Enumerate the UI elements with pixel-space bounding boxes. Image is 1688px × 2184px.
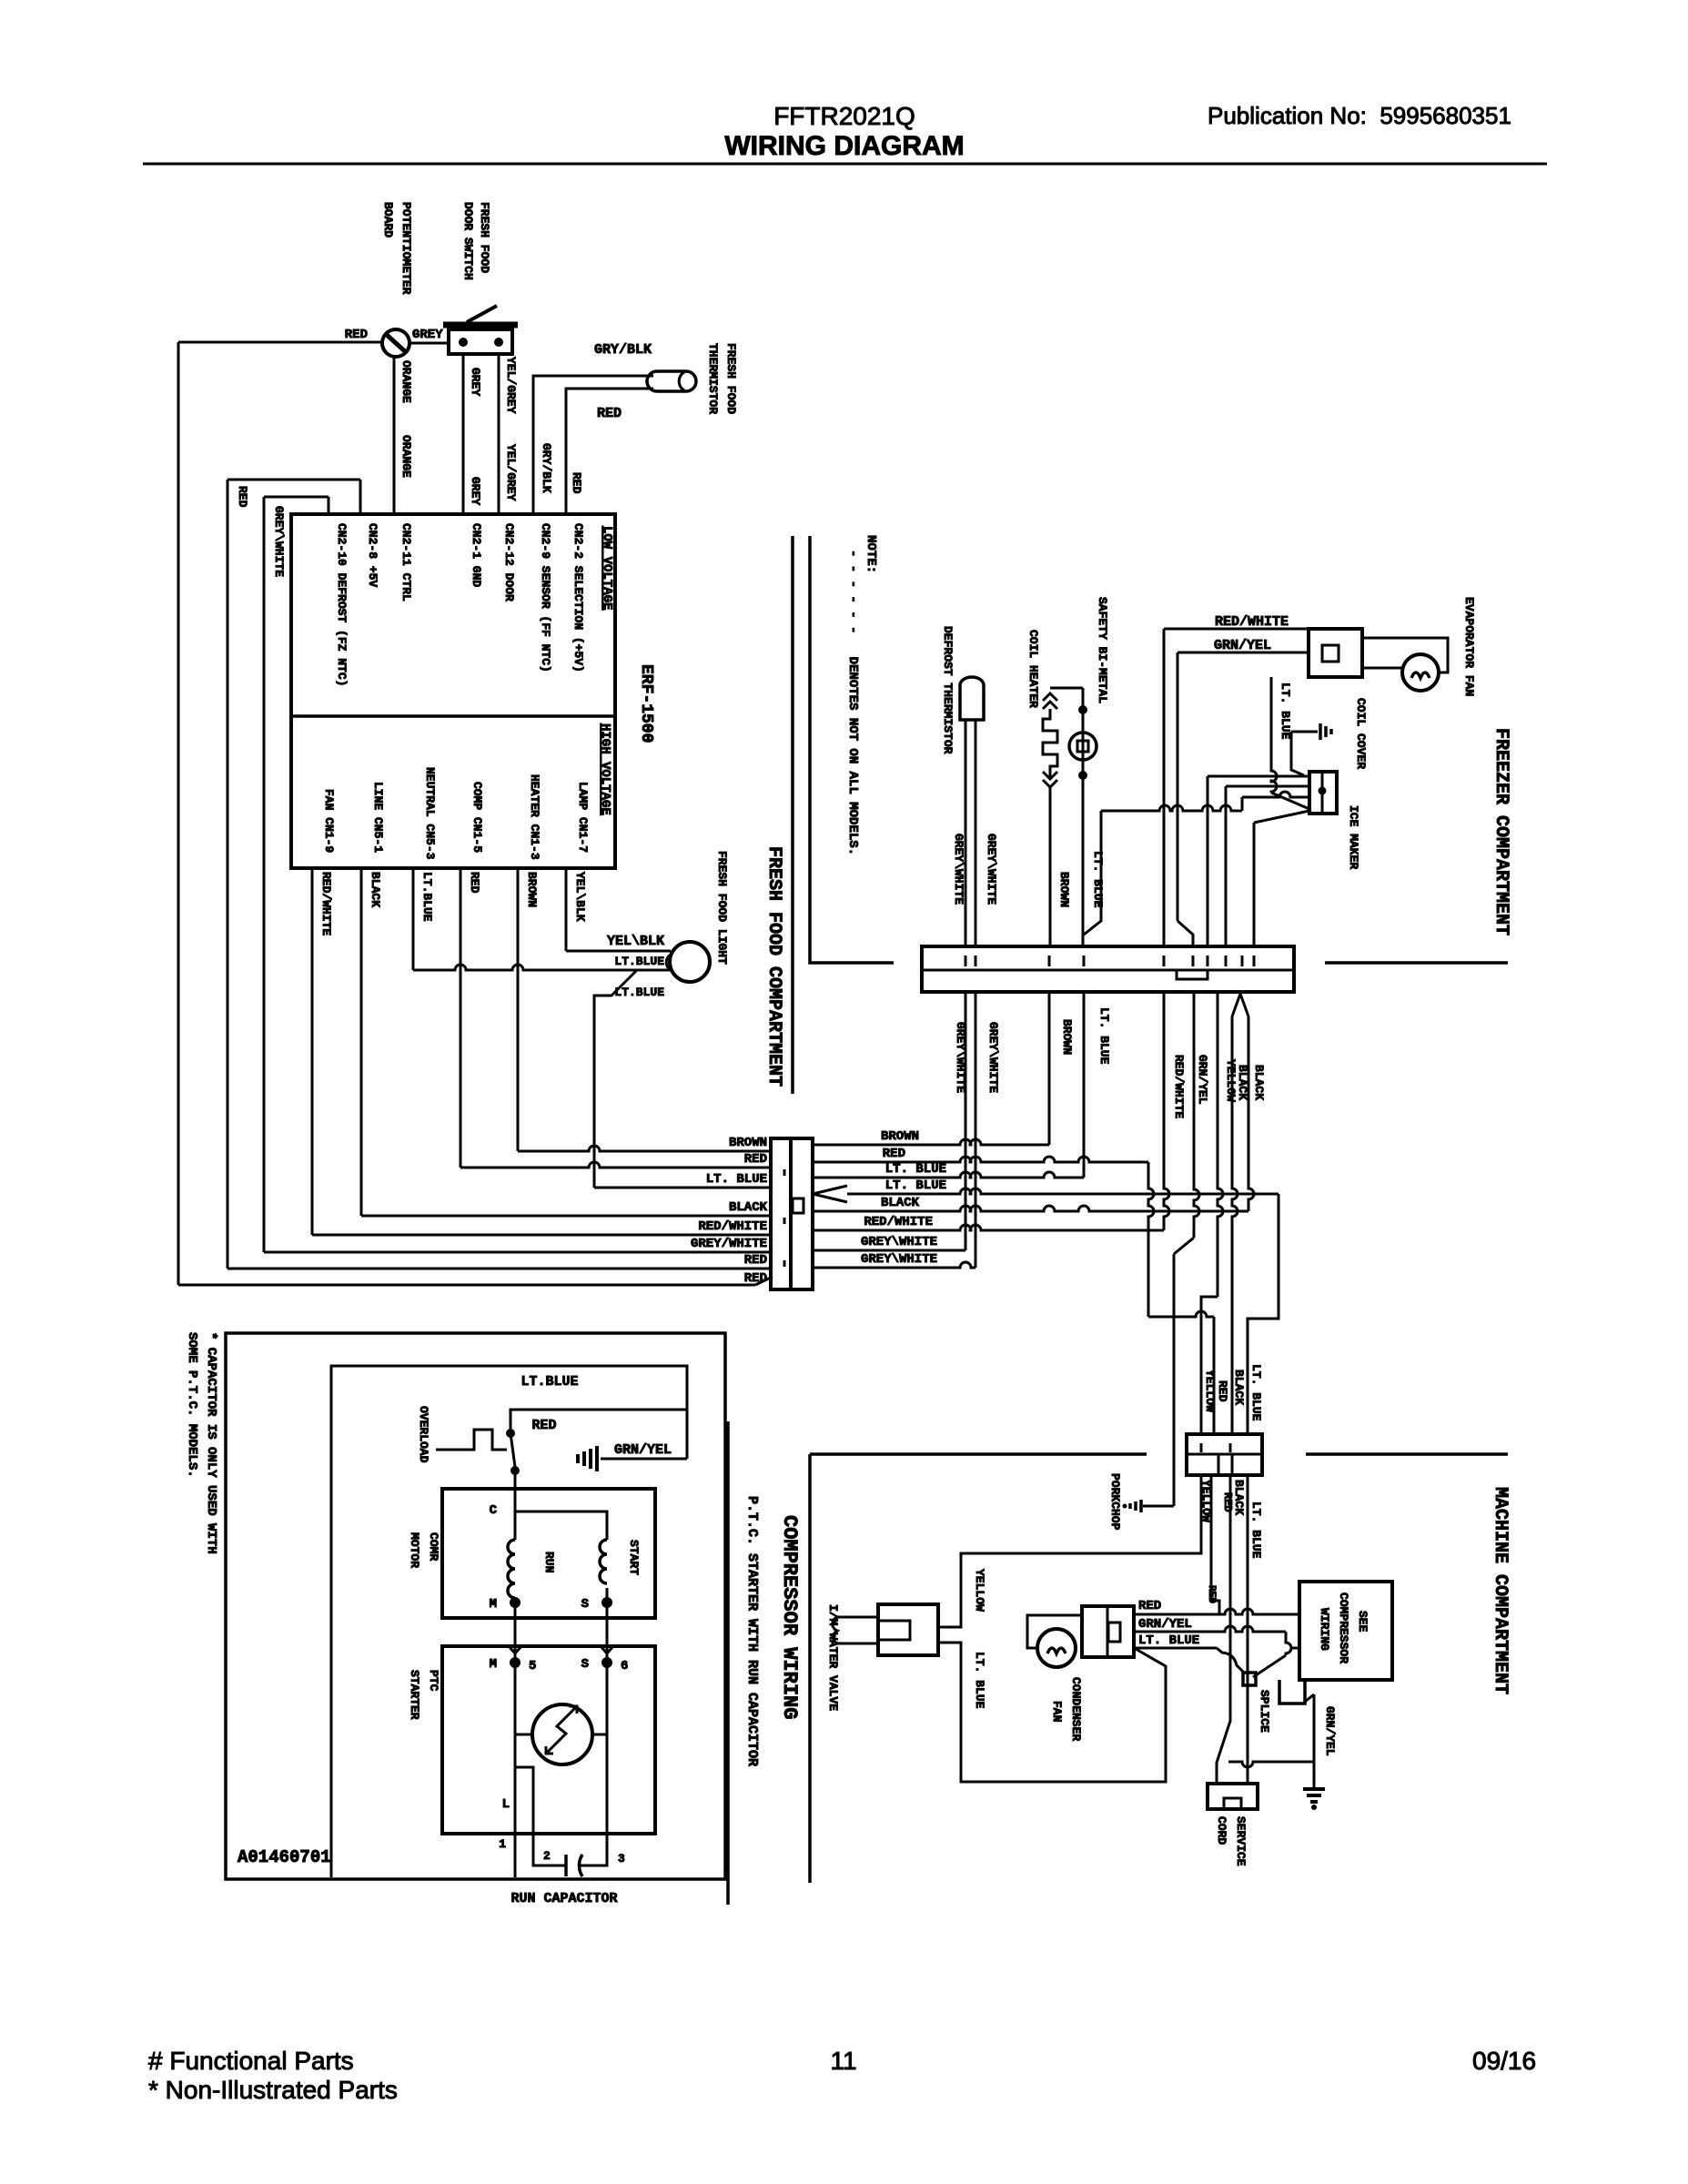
svg-text:POTENTIOMETER: POTENTIOMETER — [399, 202, 413, 295]
svg-text:ERF-1500: ERF-1500 — [637, 664, 655, 743]
wire LT. BLUE row left — [594, 1187, 771, 1189]
overload protector S3 — [436, 1430, 507, 1450]
svg-text:THERMISTOR: THERMISTOR — [706, 343, 720, 414]
stub CN2-10 pin — [328, 497, 330, 514]
wire pin3 — [606, 1734, 609, 1849]
wire LT.BLUE bumps-line join — [1084, 811, 1101, 935]
wire LT. BLUE stub to compressor box — [1291, 1647, 1301, 1650]
freezer compartment boundary right — [1325, 961, 1508, 965]
svg-text:MACHINE COMPARTMENT: MACHINE COMPARTMENT — [1490, 1487, 1511, 1694]
svg-text:COMPRESSOR WIRING: COMPRESSOR WIRING — [778, 1515, 801, 1719]
compressor detail outer box — [226, 1333, 725, 1879]
wire ice maker third — [1242, 792, 1309, 797]
wire GREY\WHITE row right 1 — [813, 1249, 965, 1252]
wire evap fan connector to motor top — [1362, 638, 1448, 672]
wire GREY\WHITE row right 2 — [813, 1262, 975, 1268]
svg-text:RED: RED — [744, 1152, 767, 1167]
freezer harness connector J3 — [922, 946, 1294, 992]
wire GREY\WHITE defrost 2 — [975, 720, 977, 946]
svg-text:RED: RED — [1221, 1492, 1234, 1512]
wire LT.BLUE loop — [331, 1366, 687, 1877]
wire RED/WHITE row left — [312, 1234, 771, 1237]
svg-text:LT. BLUE: LT. BLUE — [1249, 1501, 1263, 1559]
wire GREY\WHITE column horizontal — [264, 496, 329, 499]
see compressor wiring box — [1299, 1582, 1392, 1680]
starter M terminal — [510, 1657, 521, 1668]
coil heater R2 — [1050, 687, 1083, 690]
svg-text:RED: RED — [531, 1418, 556, 1433]
compartment divider line A — [791, 536, 794, 1094]
motor S terminal — [601, 1597, 612, 1608]
wire RED left column vertical — [177, 342, 180, 1285]
svg-text:YEL\BLK: YEL\BLK — [573, 872, 587, 922]
svg-text:* Non-Illustrated Parts: * Non-Illustrated Parts — [148, 2076, 398, 2104]
svg-text:HEATER CN1-3: HEATER CN1-3 — [528, 774, 541, 860]
wire coil cover ground — [1291, 732, 1304, 775]
svg-text:GREY\WHITE: GREY\WHITE — [861, 1235, 937, 1249]
compressor wiring section boundary — [726, 1421, 730, 1905]
svg-text:START: START — [627, 1540, 641, 1575]
svg-text:1: 1 — [499, 1837, 506, 1851]
control board ERF-1500 outline — [291, 514, 615, 868]
coil cover ground symbol — [1291, 731, 1318, 733]
wire YEL\BLK to fresh food light — [566, 950, 671, 953]
svg-text:COMPRESSOR: COMPRESSOR — [1337, 1592, 1350, 1663]
svg-text:GRY/BLK: GRY/BLK — [540, 443, 553, 493]
wire BLACK row left — [361, 1215, 771, 1218]
svg-text:BLACK: BLACK — [729, 1200, 768, 1215]
motor M terminal — [510, 1597, 521, 1608]
svg-text:NEUTRAL CN5-3: NEUTRAL CN5-3 — [423, 767, 437, 860]
im water valve coil L1 — [837, 1616, 878, 1619]
svg-text:FAN: FAN — [1050, 1701, 1064, 1722]
potentiometer board R1 — [382, 329, 409, 357]
ptc starter box — [442, 1646, 655, 1834]
svg-text:RED: RED — [597, 406, 622, 421]
svg-text:LOW VOLTAGE: LOW VOLTAGE — [600, 526, 614, 610]
svg-text:FRESH FOOD: FRESH FOOD — [478, 202, 491, 273]
wire RED overload — [510, 1410, 687, 1429]
evaporator fan connector J1 — [1309, 629, 1362, 677]
svg-text:LT.BLUE: LT.BLUE — [614, 986, 664, 999]
svg-text:GREY\WHITE: GREY\WHITE — [985, 834, 998, 905]
stub CN2-8 pin — [359, 480, 362, 514]
svg-text:RED/WHITE: RED/WHITE — [1172, 1055, 1186, 1118]
svg-text:RED/WHITE: RED/WHITE — [698, 1219, 767, 1234]
wire BROWN row left — [518, 1146, 771, 1151]
svg-text:RED: RED — [1206, 1585, 1217, 1603]
svg-text:BROWN: BROWN — [881, 1129, 919, 1144]
porkchop ground wire — [1143, 1505, 1174, 1508]
svg-text:11: 11 — [830, 2047, 856, 2075]
svg-text:- - - - - - DENOTES NOT ON A: - - - - - - DENOTES NOT ON ALL MODELS. — [845, 550, 860, 855]
svg-text:RED: RED — [1216, 1380, 1229, 1402]
svg-text:CN2-12 DOOR: CN2-12 DOOR — [502, 523, 516, 602]
wire evap fan connector to motor bottom — [1362, 667, 1402, 670]
wire RED row left — [460, 1162, 771, 1168]
svg-text:BROWN: BROWN — [525, 872, 539, 907]
wire M to starter — [514, 1603, 517, 1663]
im water valve connector — [878, 1604, 938, 1655]
wire RED thermistor to board CN2-2 — [566, 389, 653, 514]
svg-text:GREY\WHITE: GREY\WHITE — [954, 1022, 967, 1093]
wire LT. BLUE porkchop to splice and service cord — [1247, 1475, 1249, 1784]
svg-text:M: M — [490, 1657, 497, 1672]
wire LT. BLUE condenser to splice — [1134, 1647, 1217, 1650]
svg-text:LT. BLUE: LT. BLUE — [1249, 1364, 1263, 1421]
svg-text:S: S — [581, 1597, 589, 1612]
svg-text:YELLOW: YELLOW — [973, 1569, 986, 1612]
svg-text:GREY\WHITE: GREY\WHITE — [272, 506, 286, 577]
wedge splice arrow LT. BLUE — [813, 1186, 847, 1202]
svg-text:CN2-1 GND: CN2-1 GND — [470, 523, 483, 587]
svg-text:3: 3 — [618, 1852, 625, 1865]
evaporator fan motor M1 — [1402, 654, 1439, 691]
wire LT. BLUE water valve loop — [938, 1643, 1166, 1782]
svg-text:GRY/BLK: GRY/BLK — [594, 342, 652, 358]
svg-text:GRN/YEL: GRN/YEL — [1138, 1617, 1192, 1632]
wire RED condenser to compressor box — [1134, 1609, 1301, 1614]
wire GRN/YEL to service ground — [1305, 1694, 1314, 1702]
svg-text:6: 6 — [621, 1659, 628, 1673]
wire BROWN below connector — [1048, 992, 1051, 1145]
svg-text:LT. BLUE: LT. BLUE — [885, 1162, 946, 1177]
svg-text:GRN/YEL: GRN/YEL — [1196, 1055, 1209, 1105]
machine compartment boundary — [810, 1452, 1147, 1456]
svg-text:BROWN: BROWN — [729, 1136, 767, 1150]
wire BLACK from LINE CN5-1 — [360, 868, 363, 1216]
wire RED row left lower — [227, 1268, 771, 1270]
svg-text:SERVICE: SERVICE — [1234, 1816, 1248, 1866]
wire GRN/YEL ice maker — [1208, 775, 1309, 778]
svg-text:NOTE:: NOTE: — [864, 535, 878, 573]
svg-text:ICE MAKER: ICE MAKER — [1347, 805, 1360, 869]
svg-text:RED: RED — [744, 1253, 767, 1268]
ice maker connector J2 — [1309, 772, 1337, 814]
svg-text:RED: RED — [345, 328, 368, 342]
condenser fan connector J6 — [1082, 1606, 1134, 1657]
wire GREY\WHITE below connector 1 — [965, 992, 967, 1250]
svg-text:YEL\BLK: YEL\BLK — [607, 934, 664, 949]
svg-text:HIGH VOLTAGE: HIGH VOLTAGE — [598, 723, 612, 815]
svg-text:GRN/YEL: GRN/YEL — [1323, 1706, 1337, 1756]
wire YELLOW below connector — [1218, 992, 1223, 1297]
svg-text:LAMP CN1-7: LAMP CN1-7 — [576, 782, 590, 853]
wire RED/WHITE from FAN CN1-9 — [311, 868, 314, 1235]
svg-text:BLACK: BLACK — [369, 872, 382, 907]
svg-text:COIL COVER: COIL COVER — [1354, 698, 1368, 769]
wire GRN/YEL evap fan to connector — [1178, 652, 1309, 654]
svg-text:2: 2 — [543, 1849, 551, 1863]
svg-text:A01460701: A01460701 — [238, 1847, 331, 1867]
svg-text:WIRING: WIRING — [1318, 1608, 1331, 1651]
wire GRN/YEL splice jumper — [1228, 1762, 1314, 1767]
wire YEL\BLK from LAMP CN1-7 — [565, 868, 568, 951]
svg-text:OVERLOAD: OVERLOAD — [417, 1406, 430, 1463]
svg-text:# Functional Parts: # Functional Parts — [148, 2047, 354, 2075]
svg-text:RED: RED — [744, 1271, 767, 1286]
svg-text:BLACK: BLACK — [881, 1196, 920, 1210]
wire GRY/BLK thermistor to board CN2-9 — [533, 376, 653, 514]
wire LT. BLUE below connector — [1083, 992, 1086, 1178]
svg-text:L: L — [502, 1797, 510, 1812]
black pair split wedge — [1232, 994, 1248, 1016]
condenser fan motor M2 — [1037, 1629, 1076, 1667]
header rule — [143, 163, 1547, 166]
comr motor box — [442, 1489, 655, 1618]
svg-text:CN2-11 CTRL: CN2-11 CTRL — [399, 523, 413, 602]
wire LT.BLUE from NEUTRAL CN5-3 — [412, 868, 415, 970]
svg-text:WIRING DIAGRAM: WIRING DIAGRAM — [724, 131, 964, 161]
svg-text:CN2-2 SELECTION (+5V): CN2-2 SELECTION (+5V) — [571, 523, 585, 672]
porkchop connector J5 — [1187, 1434, 1262, 1475]
wire BLACK porkchop down — [1217, 1475, 1230, 1784]
svg-text:LT. BLUE: LT. BLUE — [1097, 1007, 1111, 1065]
svg-text:CN2-8 +5V: CN2-8 +5V — [366, 523, 379, 587]
svg-text:CN2-10 DEFROST (FZ NTC): CN2-10 DEFROST (FZ NTC) — [335, 523, 349, 686]
svg-text:BLACK: BLACK — [1232, 1480, 1246, 1515]
svg-text:5: 5 — [529, 1659, 536, 1673]
wire S to starter — [606, 1588, 609, 1663]
fresh food harness connector J4 — [771, 1138, 791, 1289]
svg-text:DEFROST THERMISTOR: DEFROST THERMISTOR — [941, 626, 955, 754]
fresh food thermistor RT1 — [647, 371, 696, 391]
svg-text:SAFETY BI-METAL: SAFETY BI-METAL — [1096, 597, 1109, 703]
wire RED/WHITE row right — [813, 1225, 1164, 1230]
svg-text:LT.BLUE: LT.BLUE — [521, 1374, 578, 1390]
svg-text:YEL/GREY: YEL/GREY — [504, 444, 518, 501]
wire BLACK ice maker diagonal — [1254, 811, 1309, 823]
svg-text:LT.BLUE: LT.BLUE — [420, 872, 434, 922]
svg-text:LT. BLUE: LT. BLUE — [973, 1652, 986, 1709]
ground symbol GRN/YEL compressor — [601, 1458, 687, 1461]
wire LT. BLUE wedge row right — [847, 1188, 1279, 1194]
svg-text:YELLOW: YELLOW — [1199, 1480, 1213, 1522]
defrost thermistor RT2 — [960, 677, 984, 720]
svg-text:FAN CN1-9: FAN CN1-9 — [322, 789, 336, 853]
safety bi-metal S2 — [1078, 705, 1087, 714]
wire RED from potentiometer to left column — [178, 341, 382, 344]
svg-text:C: C — [490, 1503, 498, 1518]
svg-text:STARTER: STARTER — [408, 1670, 421, 1720]
wire GREY potentiometer to switch — [409, 342, 449, 345]
svg-text:RED: RED — [468, 872, 481, 894]
svg-text:ORANGE: ORANGE — [399, 360, 413, 403]
svg-text:GREY: GREY — [469, 368, 482, 396]
wire GRN/YEL condenser to splice — [1134, 1626, 1286, 1632]
wire RED row right — [813, 1157, 1148, 1162]
svg-text:09/16: 09/16 — [1472, 2047, 1536, 2075]
svg-text:BLACK: BLACK — [1252, 1065, 1266, 1100]
svg-text:M: M — [490, 1597, 497, 1612]
wire RED porkchop down — [1211, 1475, 1219, 1614]
svg-text:RED: RED — [1138, 1599, 1161, 1613]
svg-text:YELLOW: YELLOW — [1203, 1370, 1217, 1412]
service cord connector J7 — [1208, 1784, 1258, 1809]
wire BROWN coil heater to connector — [1049, 787, 1052, 946]
svg-text:COMR: COMR — [427, 1532, 440, 1561]
wire GREY\WHITE defrost 1 — [965, 720, 967, 946]
svg-text:LT. BLUE: LT. BLUE — [1091, 851, 1105, 908]
wire M to ptc — [515, 1663, 532, 1734]
wire BLACK below connector 1 — [1232, 1016, 1238, 1434]
compartment divider line B — [810, 536, 894, 963]
wire GREY\WHITE column vertical — [263, 497, 266, 1252]
svg-text:EVAPORATOR FAN: EVAPORATOR FAN — [1462, 597, 1476, 696]
svg-text:LT. BLUE: LT. BLUE — [1138, 1633, 1199, 1648]
wire BROWN from HEATER CN1-3 — [517, 868, 520, 1151]
wire GREY door switch to board CN2-1 — [462, 354, 465, 514]
svg-text:GRN/YEL: GRN/YEL — [1214, 638, 1271, 653]
svg-text:RED/WHITE: RED/WHITE — [864, 1215, 933, 1229]
run winding L2 — [508, 1540, 515, 1598]
start winding L3 — [600, 1540, 607, 1583]
svg-text:CONDENSER: CONDENSER — [1069, 1677, 1083, 1741]
run capacitor C1 — [533, 1849, 566, 1865]
svg-text:I/M WATER VALVE: I/M WATER VALVE — [826, 1604, 840, 1711]
svg-text:LT. BLUE: LT. BLUE — [1279, 682, 1292, 740]
svg-text:* CAPACITOR IS ONLY USED WITH: * CAPACITOR IS ONLY USED WITH — [204, 1332, 218, 1554]
svg-text:GREY: GREY — [469, 477, 482, 505]
svg-text:GREY\WHITE: GREY\WHITE — [986, 1022, 1000, 1093]
svg-text:BROWN: BROWN — [1060, 1019, 1074, 1055]
svg-text:FFTR2021Q: FFTR2021Q — [773, 102, 915, 130]
svg-text:YEL/GREY: YEL/GREY — [504, 357, 518, 414]
wire BROWN row right — [813, 1139, 1049, 1145]
wire L step — [515, 1767, 533, 1849]
wire RED +5V column vertical — [227, 480, 229, 1269]
svg-text:SEE: SEE — [1356, 1611, 1370, 1633]
ptc resistor RT3 — [532, 1704, 592, 1764]
svg-text:RUN: RUN — [542, 1552, 556, 1572]
svg-text:CN2-9 SENSOR (FF NTC): CN2-9 SENSOR (FF NTC) — [539, 523, 552, 672]
svg-text:GRN/YEL: GRN/YEL — [614, 1442, 672, 1458]
control board low/high voltage divider — [291, 714, 615, 718]
svg-text:RED: RED — [236, 486, 249, 508]
wire C junction — [515, 1512, 607, 1540]
svg-text:P.T.C. STARTER WITH RUN CAPACI: P.T.C. STARTER WITH RUN CAPACITOR — [744, 1496, 760, 1766]
svg-text:CORD: CORD — [1215, 1816, 1228, 1845]
wire GREY/WHITE row left — [264, 1251, 771, 1254]
svg-text:BOARD: BOARD — [381, 202, 395, 238]
wire BLACK below connector 2 — [1248, 1016, 1254, 1211]
svg-text:GREY/WHITE: GREY/WHITE — [691, 1237, 767, 1251]
wire RED/WHITE evap fan to connector — [1164, 628, 1309, 631]
svg-text:LT.BLUE: LT.BLUE — [614, 955, 664, 968]
svg-text:RED: RED — [570, 472, 583, 494]
svg-text:COIL HEATER: COIL HEATER — [1026, 630, 1040, 708]
wire S to ptc — [592, 1663, 607, 1734]
svg-text:Publication No: 5995680351: Publication No: 5995680351 — [1208, 102, 1511, 129]
svg-text:BLACK: BLACK — [1232, 1370, 1246, 1405]
svg-text:COMP CN1-5: COMP CN1-5 — [470, 782, 484, 853]
splice — [1243, 1673, 1256, 1685]
service ground symbol — [1303, 1787, 1325, 1791]
svg-text:FREEZER COMPARTMENT: FREEZER COMPARTMENT — [1491, 728, 1511, 935]
fresh food door switch S1 — [449, 329, 512, 354]
wire RED from COMP CN1-5 — [460, 868, 462, 1168]
wire LT.BLUE light to NEUTRAL CN5-3 with hops — [413, 965, 671, 970]
wire GREY\WHITE below connector 2 — [975, 992, 977, 1268]
svg-text:RED/WHITE: RED/WHITE — [319, 872, 333, 935]
svg-text:FRESH FOOD LIGHT: FRESH FOOD LIGHT — [715, 851, 729, 965]
wire GRN/YEL below connector to porkchop ground — [1194, 992, 1199, 1238]
wire bundle crossover line with hops — [1101, 805, 1242, 811]
svg-text:FRESH FOOD: FRESH FOOD — [724, 343, 738, 414]
wire pin1 to box bottom — [514, 1734, 517, 1877]
svg-text:SOME P.T.C. MODELS.: SOME P.T.C. MODELS. — [185, 1332, 199, 1478]
svg-text:GREY\WHITE: GREY\WHITE — [861, 1252, 937, 1267]
wire LT. BLUE evap fan down — [1271, 677, 1277, 793]
wire LT.BLUE branch to fresh food connector — [594, 970, 637, 1188]
wire BLACK row right — [813, 1206, 1248, 1211]
svg-text:SPLICE: SPLICE — [1258, 1690, 1271, 1733]
wire LT. BLUE staircase to porkchop — [1248, 1194, 1279, 1434]
svg-text:GREY: GREY — [412, 328, 443, 342]
svg-text:DOOR SWITCH: DOOR SWITCH — [461, 202, 475, 280]
starter S terminal — [601, 1657, 612, 1668]
wire ORANGE potentiometer to board CN2-11 — [393, 357, 396, 514]
wire C to motor — [514, 1471, 517, 1512]
svg-text:RUN CAPACITOR: RUN CAPACITOR — [510, 1891, 617, 1906]
svg-text:ORANGE: ORANGE — [399, 435, 413, 478]
wire RED bottom row to fresh food connector — [178, 1284, 755, 1287]
svg-text:PORKCHOP: PORKCHOP — [1108, 1473, 1122, 1531]
compressor box tab — [1279, 1680, 1305, 1704]
wire RED staircase to porkchop — [1148, 1162, 1154, 1317]
wire YELLOW ice maker — [1226, 785, 1309, 788]
svg-text:LT. BLUE: LT. BLUE — [885, 1178, 946, 1193]
svg-text:BROWN: BROWN — [1057, 872, 1071, 907]
wire LT. BLUE row right — [813, 1172, 1084, 1178]
svg-text:S: S — [581, 1657, 589, 1672]
svg-text:PTC: PTC — [427, 1670, 440, 1692]
svg-text:LINE CN5-1: LINE CN5-1 — [371, 782, 385, 853]
svg-text:FRESH FOOD COMPARTMENT: FRESH FOOD COMPARTMENT — [763, 846, 784, 1087]
wire condenser fan loop — [1027, 1615, 1082, 1648]
fresh food light DS1 — [670, 942, 710, 982]
svg-text:GREY\WHITE: GREY\WHITE — [952, 834, 965, 905]
wire RED +5V column horizontal — [227, 479, 360, 481]
svg-text:LT. BLUE: LT. BLUE — [706, 1172, 767, 1187]
svg-text:RED/WHITE: RED/WHITE — [1215, 614, 1289, 630]
svg-text:RED: RED — [883, 1147, 905, 1161]
wire YELLOW porkchop to water valve — [938, 1475, 1201, 1627]
wire YEL/GREY door switch to board CN2-12 — [498, 354, 500, 514]
svg-text:MOTOR: MOTOR — [408, 1532, 421, 1568]
